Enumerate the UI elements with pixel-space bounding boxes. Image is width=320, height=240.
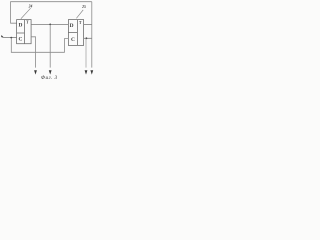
output arrow 2 <box>49 70 52 74</box>
paper background <box>0 0 100 80</box>
svg-text:C: C <box>18 37 22 43</box>
input arrow terminal <box>1 35 3 37</box>
wire: top feedback rail from D1 input up and across to right side <box>11 2 92 24</box>
svg-text:Фиг. 3: Фиг. 3 <box>41 75 58 80</box>
wire: clock branch down, along bottom, up to C of U2 <box>11 38 68 53</box>
svg-text:D: D <box>18 23 22 29</box>
flip-flop U2 (right D-trigger, label 25) <box>68 20 83 46</box>
svg-text:D: D <box>70 23 74 29</box>
wire: right feedback vertical down to bottom arrow <box>91 2 93 68</box>
node: output junction <box>86 37 88 39</box>
svg-text:24: 24 <box>28 5 33 9</box>
output arrow 4 <box>90 70 93 74</box>
leader line for label 25 <box>76 10 83 18</box>
node: Q1 junction <box>49 24 51 26</box>
svg-text:C: C <box>71 37 75 43</box>
output arrow 3 <box>85 70 88 74</box>
wire: U2 upper right output to feedback rail <box>84 24 92 26</box>
wire: T output of U1 to D input of U2 <box>31 23 68 25</box>
leader line for label 24 <box>21 8 31 19</box>
wire: lower output of U1 right side, down to bottom output <box>31 37 35 68</box>
svg-text:25: 25 <box>81 5 86 9</box>
wire: U2 lower right output to feedback rail <box>84 37 92 39</box>
node: clock junction <box>10 37 12 39</box>
output arrow 1 <box>34 70 37 74</box>
wire: Q1 drop to bottom output <box>49 24 51 67</box>
wire: clock input into C of U1 <box>2 37 16 39</box>
flip-flop U1 (left D-trigger, label 24) <box>17 20 32 44</box>
wire: drop from output junction to bottom arrow <box>85 38 87 67</box>
